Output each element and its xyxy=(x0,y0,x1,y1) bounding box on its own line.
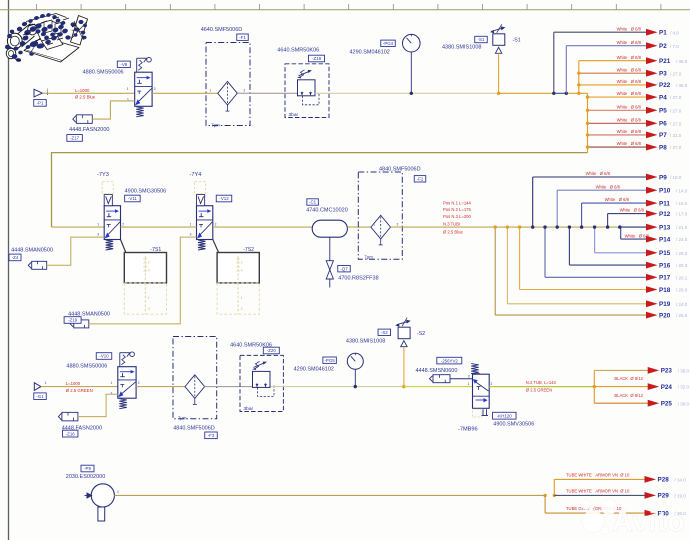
node at PG5 connection xyxy=(354,385,357,388)
junction node P5 xyxy=(586,109,589,112)
sensor block -7S2 xyxy=(217,253,259,283)
svg-text:-Z17: -Z17 xyxy=(70,136,80,141)
svg-text:Ø 2.5 Blue: Ø 2.5 Blue xyxy=(443,230,463,235)
wire branch to port P28 xyxy=(553,479,555,495)
wire Z18 to gauge PG4 node xyxy=(315,92,412,94)
arrow P11 xyxy=(646,200,658,207)
arrow P15 xyxy=(646,249,658,256)
junction node P4 xyxy=(586,95,589,98)
arrow P2 xyxy=(646,42,658,49)
svg-text:TUBE WHITE ARMOR VN Ø 10: TUBE WHITE ARMOR VN Ø 10 xyxy=(566,473,630,478)
wire branch to port P16 xyxy=(568,227,570,265)
svg-text:P15: P15 xyxy=(659,250,671,257)
arrow P5 xyxy=(646,107,658,114)
wire F3 to regulator Z20 xyxy=(204,386,252,388)
silencer 4448.SMAN0500 (7Y3 exhaust) xyxy=(28,261,47,269)
junction node on distribution rail xyxy=(531,225,534,228)
arrow P19 xyxy=(646,300,658,307)
svg-text:2: 2 xyxy=(491,382,493,386)
svg-text:-Z19: -Z19 xyxy=(68,318,78,323)
actuator outline above 7Y4 xyxy=(195,182,206,194)
exhaust port marks under 7MB96 xyxy=(482,409,489,415)
svg-text:Pos N.2 L=175: Pos N.2 L=175 xyxy=(443,207,471,212)
svg-text:3: 3 xyxy=(148,307,150,311)
svg-text:/ 24.0: / 24.0 xyxy=(676,237,688,242)
svg-text:White Ø 6/8: White Ø 6/8 xyxy=(596,184,621,189)
regulator Z18 4640.SMR50K06 xyxy=(285,64,329,118)
sensor block -7S1 xyxy=(124,253,166,283)
svg-text:4900.SMV30506: 4900.SMV30506 xyxy=(493,422,534,428)
svg-text:-Q7: -Q7 xyxy=(340,266,348,271)
svg-text:White Ø 6/8: White Ø 6/8 xyxy=(617,79,642,84)
wire branch to port P19 xyxy=(506,227,508,304)
svg-text:P11: P11 xyxy=(659,200,670,207)
gauge PG5 4290.SM046102 xyxy=(347,353,363,369)
label -Z19 xyxy=(64,317,81,324)
3D CAD assembly thumbnail xyxy=(5,13,88,62)
svg-text:White Ø 6/8: White Ø 6/8 xyxy=(617,104,642,109)
arrow P16 xyxy=(646,262,658,269)
label -S2 xyxy=(378,329,391,335)
wire branch to port P1 xyxy=(553,32,555,93)
svg-text:4448.SMSN0600: 4448.SMSN0600 xyxy=(416,368,458,374)
wire branch to port P10 xyxy=(556,190,558,227)
svg-text:P28: P28 xyxy=(658,477,670,484)
wire branch to port P8 xyxy=(588,146,648,148)
svg-text:P20: P20 xyxy=(659,312,671,319)
wire Z20 to gauge PG5 node xyxy=(271,386,356,388)
wire branch to port P25 xyxy=(594,402,648,404)
wire gauge PG4 stem xyxy=(410,52,412,93)
svg-text:2: 2 xyxy=(138,381,140,385)
svg-text:/ 14.0: / 14.0 xyxy=(676,188,688,193)
svg-text:White Ø 6/8: White Ø 6/8 xyxy=(617,67,642,72)
wire P1 to valve V9 port1 xyxy=(42,92,134,94)
svg-text:/ 30.0: / 30.0 xyxy=(678,401,690,406)
filter F2 4840.SMF5006D xyxy=(358,172,402,259)
wire V10 to filter F3 xyxy=(136,386,185,388)
svg-text:/ 29.0: / 29.0 xyxy=(676,288,688,293)
arrow P17 xyxy=(646,274,658,281)
wire S2 stem to rail xyxy=(403,347,405,387)
label -KH120 xyxy=(493,412,517,419)
arrow P21 xyxy=(646,57,658,64)
wire gauge PG5 stem xyxy=(354,369,356,386)
svg-text:BLACK Ø 8/12: BLACK Ø 8/12 xyxy=(614,376,643,381)
svg-text:-7Y4: -7Y4 xyxy=(190,172,202,178)
svg-text:2: 2 xyxy=(241,261,243,265)
svg-text:4448.FASN2000: 4448.FASN2000 xyxy=(69,127,109,133)
wire branch to port P15 xyxy=(594,227,596,253)
svg-text:P14: P14 xyxy=(659,236,671,243)
svg-text:/ 27.0: / 27.0 xyxy=(670,145,682,150)
wire pump output rail xyxy=(114,494,545,496)
valve V10 4880.SMS50006 (3/2 solenoid) xyxy=(118,352,136,409)
svg-text:-P1: -P1 xyxy=(37,101,44,106)
svg-text:-S2: -S2 xyxy=(417,331,425,337)
svg-text:/ 27.0: / 27.0 xyxy=(670,108,682,113)
svg-text:Ø 2.5 Blue: Ø 2.5 Blue xyxy=(75,94,96,99)
wire to down corner xyxy=(566,92,587,94)
wire S1 node to P1 branch node xyxy=(500,92,554,94)
svg-text:P17: P17 xyxy=(659,275,671,282)
svg-text:Pos N.1 L=144: Pos N.1 L=144 xyxy=(443,201,471,206)
exhaust outline under 7MB96 xyxy=(473,409,482,417)
svg-text:-C1: -C1 xyxy=(309,200,317,205)
svg-text:/ 15.0: / 15.0 xyxy=(676,201,688,206)
svg-text:4380.SMIS1008: 4380.SMIS1008 xyxy=(442,45,481,51)
label -C1 xyxy=(307,199,319,205)
svg-text:White Ø 6/8: White Ø 6/8 xyxy=(617,117,642,122)
actuator outline above 7Y3 xyxy=(102,182,113,194)
arrow P22 xyxy=(646,82,658,89)
svg-text:White Ø 6/8: White Ø 6/8 xyxy=(617,91,642,96)
svg-text:P13: P13 xyxy=(659,224,671,231)
svg-text:P8: P8 xyxy=(659,144,667,151)
svg-text:TUBE WHITE ARMOR VN Ø 10: TUBE WHITE ARMOR VN Ø 10 xyxy=(566,489,630,494)
wire PG5 node to S2 node xyxy=(355,386,404,388)
svg-text:P5: P5 xyxy=(659,108,667,115)
svg-text:-7MB96: -7MB96 xyxy=(458,426,478,432)
svg-text:/ 20.1: / 20.1 xyxy=(676,275,688,280)
label -P9 xyxy=(81,465,94,472)
valve 7Y4 4900.SMG30506 (3/2 solenoid) xyxy=(197,195,213,251)
svg-text:P9: P9 xyxy=(659,174,667,181)
svg-text:Ø 2.5 GREEN: Ø 2.5 GREEN xyxy=(526,388,552,393)
svg-text:P2: P2 xyxy=(659,43,667,50)
svg-text:/ 21.0: / 21.0 xyxy=(676,225,688,230)
wire branch to port P12 xyxy=(607,214,609,228)
svg-text:2: 2 xyxy=(154,87,156,91)
svg-text:P12: P12 xyxy=(659,211,671,218)
wire vertical branch P23-P25 xyxy=(593,370,595,403)
svg-text:/ 10.0: / 10.0 xyxy=(670,175,682,180)
node at PG4 connection xyxy=(410,92,413,95)
svg-text:4880.SMS50006: 4880.SMS50006 xyxy=(83,70,124,76)
svg-text:2: 2 xyxy=(397,222,399,226)
svg-text:3: 3 xyxy=(127,98,129,102)
svg-text:7μm: 7μm xyxy=(364,254,373,259)
svg-text:/ 36.0: / 36.0 xyxy=(676,59,688,64)
svg-text:1: 1 xyxy=(117,490,119,494)
wire C1 to filter F2 xyxy=(347,226,371,228)
svg-text:-F1: -F1 xyxy=(239,35,246,40)
lower dashed block of -7S2 xyxy=(217,283,259,314)
svg-text:4640.SMR50K06: 4640.SMR50K06 xyxy=(277,47,319,53)
pressure switch S2 4380.SMIS1008 xyxy=(395,318,411,347)
junction node P3 xyxy=(577,72,580,75)
junction node P2 branch xyxy=(565,92,568,95)
svg-text:Pos N.3 L=200: Pos N.3 L=200 xyxy=(443,214,471,219)
svg-text:3: 3 xyxy=(468,374,470,378)
svg-text:White Ø 6/8: White Ø 6/8 xyxy=(617,129,642,134)
wire branch to port P11 xyxy=(581,203,583,227)
svg-text:White Ø 6/8: White Ø 6/8 xyxy=(625,233,650,238)
arrow P24 xyxy=(648,383,660,390)
svg-text:1: 1 xyxy=(111,381,113,385)
svg-text:/ 17.0: / 17.0 xyxy=(676,212,688,217)
svg-text:P3: P3 xyxy=(659,71,667,78)
svg-text:/ 28.2: / 28.2 xyxy=(676,251,688,256)
junction node P7 xyxy=(586,133,589,136)
wire branch to port P4 xyxy=(588,96,648,98)
svg-text:/ 27.0: / 27.0 xyxy=(670,95,682,100)
svg-text:-7S2: -7S2 xyxy=(243,247,254,253)
wire branch to port P20 xyxy=(494,227,496,315)
wire branch to port P14 xyxy=(620,227,622,239)
label -F2 xyxy=(414,176,426,182)
arrow P25 xyxy=(648,400,660,407)
svg-text:-V11: -V11 xyxy=(128,196,138,201)
silencer Z16 4448.FASN2000 xyxy=(58,412,78,421)
svg-text:Ø 2.5 GREEN: Ø 2.5 GREEN xyxy=(66,388,93,393)
wire silencer to 7Y3 port3 xyxy=(47,237,104,265)
wire branch to port P21 xyxy=(578,61,580,94)
svg-text:-7Y3: -7Y3 xyxy=(97,172,109,178)
label -V12 xyxy=(216,195,232,202)
wire branch to port P2 xyxy=(565,46,567,94)
arrow P20 xyxy=(646,312,658,319)
arrow P30 xyxy=(645,510,657,517)
svg-text:White Ø 6/8: White Ø 6/8 xyxy=(617,141,642,146)
wire PG4 node to S1 node xyxy=(412,92,500,94)
label -V9 xyxy=(117,61,130,67)
svg-text:-Z18: -Z18 xyxy=(312,56,322,61)
wire branch to port P5 xyxy=(588,109,648,111)
svg-text:P16: P16 xyxy=(659,262,671,269)
svg-text:4840.SMF5006D: 4840.SMF5006D xyxy=(173,425,215,431)
svg-text:P24: P24 xyxy=(661,384,673,391)
arrow P29 xyxy=(645,492,657,499)
svg-text:/ 27.0: / 27.0 xyxy=(670,121,682,126)
accumulator C1 4740.CMC10020 xyxy=(312,220,347,237)
arrow P23 xyxy=(648,367,660,374)
svg-text:2: 2 xyxy=(122,222,124,226)
valve 7Y3 4900.SMG30506 (3/2 solenoid) xyxy=(104,195,120,251)
arrow P12 xyxy=(646,210,658,217)
svg-text:4880.SMS50006: 4880.SMS50006 xyxy=(66,363,107,369)
wire branch to port P6 xyxy=(588,122,648,124)
wire silencer to 7MB96 pilot port xyxy=(450,378,473,380)
wire branch to port P17 xyxy=(544,227,546,277)
svg-text:1: 1 xyxy=(373,222,375,226)
junction node on distribution rail xyxy=(618,225,621,228)
svg-text:P19: P19 xyxy=(659,301,671,308)
svg-text:/ 27.0: / 27.0 xyxy=(670,71,682,76)
label -V11 xyxy=(125,195,140,202)
svg-text:P1: P1 xyxy=(659,30,667,37)
wire branch to port P29 xyxy=(554,494,645,496)
svg-text:4700.R8S2FF38: 4700.R8S2FF38 xyxy=(338,275,378,281)
arrow P28 xyxy=(645,476,657,483)
svg-text:/ 36.0: / 36.0 xyxy=(676,83,688,88)
svg-text:3: 3 xyxy=(97,232,99,236)
arrow P7 xyxy=(646,132,658,139)
junction node P28 branch xyxy=(553,494,556,497)
junction node on distribution rail xyxy=(593,225,596,228)
label -Q7 xyxy=(338,266,351,272)
svg-text:3bar: 3bar xyxy=(244,406,254,412)
svg-text:4640.SMF5006D: 4640.SMF5006D xyxy=(201,27,243,33)
junction node P22 xyxy=(577,83,580,86)
svg-text:/ 28.3: / 28.3 xyxy=(676,263,688,268)
wire branch to port P18 xyxy=(519,227,521,289)
frame top border line xyxy=(0,9,690,11)
label -S1 xyxy=(475,36,488,42)
svg-text:-F2: -F2 xyxy=(417,176,424,181)
svg-text:L=1000: L=1000 xyxy=(75,88,90,93)
wire silencer Z16 to V10 port3 xyxy=(78,394,118,416)
junction node P23 branch xyxy=(593,385,596,388)
frame left border line xyxy=(8,0,10,540)
label -P1 xyxy=(34,100,47,107)
svg-text:/ 19.0: / 19.0 xyxy=(675,494,687,499)
gauge PG4 4290.SM046102 xyxy=(403,34,421,52)
port tick at P1 source xyxy=(47,92,49,96)
junction node on distribution rail xyxy=(606,225,609,228)
svg-text:4380.SMIS1008: 4380.SMIS1008 xyxy=(346,339,385,345)
svg-text:L=1000: L=1000 xyxy=(66,381,81,386)
svg-text:Avito: Avito xyxy=(612,506,685,538)
svg-text:White Ø 6/8: White Ø 6/8 xyxy=(617,26,642,31)
svg-text:-KH120: -KH120 xyxy=(497,414,512,419)
label -Z18 xyxy=(309,55,325,62)
wire branch to port P30 xyxy=(544,495,546,513)
svg-text:2: 2 xyxy=(244,88,246,92)
drain valve Q7 4700.R8S2FF38 xyxy=(326,237,333,287)
svg-text:P21: P21 xyxy=(659,58,671,65)
svg-text:/ 7.0: / 7.0 xyxy=(670,44,679,49)
svg-text:/ 32.0: / 32.0 xyxy=(678,385,690,390)
svg-text:7μm: 7μm xyxy=(178,416,187,421)
junction node on distribution rail xyxy=(580,225,583,228)
svg-text:-Z20: -Z20 xyxy=(267,348,277,353)
svg-text:1: 1 xyxy=(97,222,99,226)
svg-text:-V12: -V12 xyxy=(219,196,229,201)
junction node on distribution rail xyxy=(494,225,497,228)
svg-text:3: 3 xyxy=(241,307,243,311)
pump P9 2030.ES002000 xyxy=(85,484,115,521)
wire rail2 olive loop xyxy=(52,153,588,228)
svg-text:-S1: -S1 xyxy=(478,37,485,42)
svg-text:3: 3 xyxy=(190,232,192,236)
svg-text:-P9: -P9 xyxy=(84,466,91,471)
node G1 source port xyxy=(34,383,41,391)
wire F1 to regulator Z18 xyxy=(237,92,297,94)
svg-text:-PG4: -PG4 xyxy=(383,41,394,46)
wire 7MB96 output green tube xyxy=(489,386,594,388)
svg-text:1: 1 xyxy=(148,296,150,300)
svg-text:1: 1 xyxy=(45,381,47,385)
silencer 4448.SMAN0500 (7Y4 exhaust) xyxy=(70,320,89,328)
arrow P9 xyxy=(646,174,658,181)
wire branch to port P3 xyxy=(579,72,647,74)
junction node P30 branch xyxy=(543,494,546,497)
label -Z16 xyxy=(62,430,77,437)
label -F3 xyxy=(205,432,218,439)
frame top tick marks xyxy=(37,4,661,10)
svg-text:1: 1 xyxy=(210,88,212,92)
valve V9 4880.SMS50006 (3/2 solenoid) xyxy=(135,57,152,116)
arrow P10 xyxy=(646,187,658,194)
svg-text:4740.CMC10020: 4740.CMC10020 xyxy=(306,208,348,214)
arrow P4 xyxy=(646,94,658,101)
wire F2 to distribution nodes xyxy=(391,226,620,228)
svg-text:N.3 TUBI: N.3 TUBI xyxy=(443,221,460,226)
wire 7Y4 to 7S2 xyxy=(213,240,219,253)
svg-text:1: 1 xyxy=(127,87,129,91)
label -Z20 xyxy=(263,347,279,354)
svg-text:White Ø 6/8: White Ø 6/8 xyxy=(617,40,642,45)
junction node P21 branch xyxy=(577,92,580,95)
arrow P1 xyxy=(646,29,658,36)
svg-text:-V10: -V10 xyxy=(99,354,109,359)
wire branch to port P24 xyxy=(594,386,648,388)
svg-text:White Ø 6/8: White Ø 6/8 xyxy=(620,208,645,213)
junction node P1 branch xyxy=(552,92,555,95)
svg-text:P18: P18 xyxy=(659,287,671,294)
wire 7Y4 port2 to accumulator C1 xyxy=(213,226,312,228)
label -Z4 xyxy=(9,254,21,261)
svg-text:-7S1: -7S1 xyxy=(150,247,161,253)
label -Z17 xyxy=(67,135,83,142)
svg-text:1: 1 xyxy=(241,296,243,300)
svg-text:-S1: -S1 xyxy=(513,37,521,43)
svg-text:BLACK Ø 8/12: BLACK Ø 8/12 xyxy=(614,393,643,398)
wire inside -7S1 lower block xyxy=(144,283,146,314)
svg-text:-F3: -F3 xyxy=(208,433,215,438)
svg-text:3: 3 xyxy=(111,392,113,396)
arrow P13 xyxy=(646,224,658,231)
node P1 source port xyxy=(34,89,42,97)
svg-text:N.2 TUB L=144: N.2 TUB L=144 xyxy=(526,380,557,385)
svg-text:/ 25.0: / 25.0 xyxy=(676,313,688,318)
junction node on distribution rail xyxy=(556,225,559,228)
arrow P3 xyxy=(646,70,658,77)
svg-text:/ 31.0: / 31.0 xyxy=(670,133,682,138)
svg-text:4290.SM046102: 4290.SM046102 xyxy=(294,367,334,373)
filter F3 4840.SMF5006D xyxy=(173,337,217,419)
wire down to rail2 corner xyxy=(587,93,589,152)
svg-text:4: 4 xyxy=(148,269,150,273)
svg-text:7μm: 7μm xyxy=(211,123,220,128)
svg-text:3bar: 3bar xyxy=(289,112,299,118)
junction node on distribution rail xyxy=(518,225,521,228)
svg-text:/ 38.0: / 38.0 xyxy=(678,369,690,374)
wire branch to port P13 xyxy=(620,226,647,228)
wire S2 node to valve 7MB96 xyxy=(404,386,473,388)
regulator Z20 4640.SMR50K06 xyxy=(240,355,283,412)
svg-text:-256YV2: -256YV2 xyxy=(441,358,459,363)
arrow P18 xyxy=(646,286,658,293)
svg-text:4840.SMF5006D: 4840.SMF5006D xyxy=(379,167,421,173)
wire V9 port2 to filter F1 xyxy=(152,92,218,94)
svg-text:4448.SMAN0500: 4448.SMAN0500 xyxy=(11,248,53,254)
label -V10 xyxy=(96,353,112,360)
svg-text:/ 34.0: / 34.0 xyxy=(675,478,687,483)
silencer 4448.SMSN0600 xyxy=(430,375,451,383)
arrow P8 xyxy=(646,144,658,151)
arrow P14 xyxy=(646,236,658,243)
watermark overlay xyxy=(581,499,685,538)
label -256YV2 xyxy=(437,357,462,364)
wire 7Y3 to 7S1 xyxy=(121,240,126,253)
label -PG4 xyxy=(381,40,396,46)
silencer Z17 4448.FASN2000 xyxy=(73,115,93,124)
junction node on distribution rail xyxy=(568,225,571,228)
wire inside -7S2 lower block xyxy=(237,283,239,314)
wire 7Y3 port2 to 7Y4 port1 xyxy=(121,226,197,228)
